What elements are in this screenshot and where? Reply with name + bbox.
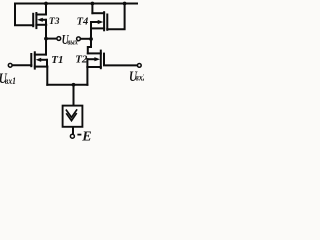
transistor T4 <box>91 12 107 30</box>
svg-text:E: E <box>81 130 91 143</box>
wire tail node to current source <box>73 85 75 105</box>
svg-text:T2: T2 <box>75 54 88 66</box>
wire T1 source down <box>46 67 48 85</box>
wire T2 gate to input right <box>104 64 137 66</box>
node dot rail-T3 <box>44 2 48 6</box>
label -E <box>77 134 81 136</box>
label Uvh1 <box>0 70 7 87</box>
wire T4 drain to rail <box>91 4 93 14</box>
wire T1 drain up to node A <box>45 39 47 55</box>
label Uvh2 <box>129 67 138 84</box>
node dot output A <box>44 37 48 41</box>
terminal output left <box>57 37 61 41</box>
arrow T4 substrate <box>98 20 104 24</box>
terminal input right <box>137 64 141 68</box>
svg-text:T1: T1 <box>51 54 63 66</box>
wire current source to -E terminal <box>72 128 74 134</box>
wire T3 gate loop <box>15 4 33 26</box>
terminal output right <box>77 37 81 41</box>
wire T3 drain to rail <box>45 4 47 15</box>
svg-text:T3: T3 <box>49 17 60 27</box>
wire T2 source down <box>86 67 88 85</box>
wire T3 source to output node A <box>45 25 47 39</box>
current source chevrons <box>66 110 76 121</box>
svg-text:вх1: вх1 <box>5 76 16 86</box>
wire common source rail <box>47 84 87 86</box>
wire top rail <box>15 3 137 5</box>
current source G1 box <box>63 106 83 127</box>
arrow T2 substrate <box>94 57 100 61</box>
transistor T1 <box>31 52 47 68</box>
svg-text:вх2: вх2 <box>135 73 144 83</box>
terminal -E <box>70 134 74 138</box>
arrow T3 substrate <box>37 18 43 22</box>
svg-text:вых: вых <box>67 38 78 47</box>
transistor T2 <box>87 51 104 69</box>
node dot rail-T4 <box>91 2 95 6</box>
node dot rail-T4gate <box>123 2 127 6</box>
node dot output B <box>89 37 93 41</box>
label Uvyh <box>62 32 70 48</box>
wire T4 gate loop <box>107 4 124 30</box>
wire node A to output terminal left <box>46 38 56 40</box>
wire T4 source down <box>88 28 91 53</box>
terminal input left <box>8 63 12 67</box>
svg-text:T4: T4 <box>77 16 89 27</box>
transistor T3 <box>33 13 46 28</box>
wire input left to T1 gate <box>13 64 32 66</box>
node dot tail <box>72 83 76 87</box>
wire output terminal right to node B <box>81 38 91 40</box>
arrow T1 substrate <box>36 58 42 62</box>
